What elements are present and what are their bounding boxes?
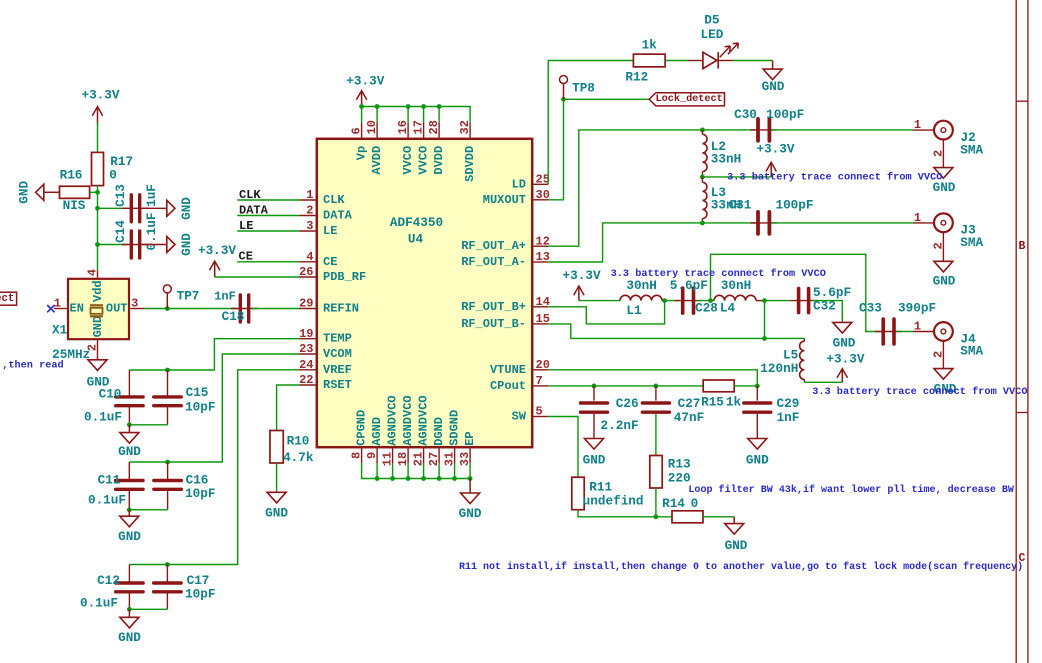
U4 left pin 29 REFIN stub (300, 308, 316, 310)
capacitor C31 (750, 222, 777, 224)
svg-text:EN: EN (70, 302, 84, 316)
svg-text:1: 1 (54, 296, 61, 310)
U4 right pin 5 SW stub (534, 416, 549, 418)
ground arrow (C13) (167, 200, 175, 216)
capacitor C14 (122, 244, 149, 246)
connector J2 pin 1 stub (913, 129, 934, 131)
wire VREF to C12/C17 (129, 370, 299, 565)
resistor R16 (60, 186, 90, 198)
svg-text:GND: GND (933, 274, 956, 289)
U4 right pin 30 MUXOUT stub (534, 199, 549, 201)
U4 top pin 32 SDVDD stub (469, 122, 471, 137)
ground (X1) (97, 356, 99, 360)
junction (452, 476, 457, 481)
svg-text:R11 not install,if install,the: R11 not install,if install,then change 0… (459, 561, 1023, 573)
wire R17 to node (97, 186, 99, 193)
capacitor C32 (790, 300, 817, 302)
svg-text:TP8: TP8 (572, 80, 595, 95)
svg-text:13: 13 (536, 250, 550, 264)
U4 right pin 7 CPout stub (534, 385, 549, 387)
svg-text:C26: C26 (616, 396, 639, 411)
svg-text:C27: C27 (678, 396, 701, 411)
U4 top pin 16 VVCO stub (407, 122, 409, 137)
U4 right pin 12 RF_OUT_A+ stub (534, 245, 549, 247)
junction (TP7) (165, 306, 170, 311)
U4 bottom pin 9 AGND stub (376, 449, 378, 464)
wire ground drop (407, 463, 409, 479)
junction (762, 336, 767, 341)
connector J4 SMA (934, 322, 953, 341)
J4 pin 2 stub (942, 341, 944, 369)
resistor R11 (572, 477, 584, 510)
ground (R10) (267, 492, 286, 503)
wire RF_OUT_A+ to J2 line (548, 130, 756, 246)
capacitor C13 (122, 207, 149, 209)
J2 pin 2 stub (942, 140, 944, 168)
junction (95, 206, 100, 211)
svg-text:1nF: 1nF (776, 410, 799, 425)
hierarchical label ect (clipped) (0, 292, 17, 305)
wire R15 to node (734, 385, 757, 387)
svg-text:C13: C13 (113, 184, 128, 207)
svg-text:2: 2 (931, 242, 945, 249)
capacitor C33 (875, 331, 902, 333)
svg-text:VCOM: VCOM (323, 347, 352, 361)
inductor L2 (702, 134, 707, 171)
svg-text:30nH: 30nH (626, 278, 656, 293)
svg-text:1nF: 1nF (214, 289, 236, 303)
svg-text:L4: L4 (720, 301, 736, 316)
junction (700, 175, 705, 180)
resistor R14 (672, 511, 703, 523)
U4 left pin 1 CLK stub (300, 199, 316, 201)
svg-text:CE: CE (239, 250, 253, 264)
svg-text:9: 9 (365, 452, 379, 459)
svg-text:AVDD: AVDD (370, 146, 384, 175)
svg-text:1: 1 (914, 211, 921, 225)
wire supply drop (361, 107, 363, 123)
ground (C10) (128, 425, 130, 433)
connector J2 SMA (934, 121, 953, 140)
wire VCOM to C11/C16 (129, 354, 299, 462)
svg-text:X1: X1 (52, 323, 68, 338)
junction (165, 368, 170, 373)
svg-text:2: 2 (931, 351, 945, 358)
svg-text:DGND: DGND (432, 417, 446, 446)
J3 pin 2 stub (942, 232, 944, 261)
junction (VTUNE/C29 node) (755, 384, 760, 389)
svg-text:AGND: AGND (370, 417, 384, 446)
junction (390, 476, 395, 481)
svg-text:390pF: 390pF (898, 301, 936, 316)
ground (J3) (934, 261, 953, 272)
wire LD to R12 (548, 61, 633, 185)
svg-text:SMA: SMA (960, 235, 983, 250)
wire ground drop (454, 463, 456, 479)
wire L1 node to C28 (665, 300, 680, 302)
svg-text:10pF: 10pF (185, 399, 215, 414)
wire RSET to R10 (277, 385, 300, 431)
svg-text:RF_OUT_A+: RF_OUT_A+ (461, 239, 526, 253)
svg-text:GND: GND (746, 453, 769, 468)
junction (127, 507, 132, 512)
wire to C14 (98, 244, 128, 246)
svg-text:GND: GND (118, 630, 141, 645)
svg-text:C18: C18 (222, 309, 245, 324)
junction (L3 bottom) (700, 221, 705, 226)
svg-text:5.6pF: 5.6pF (670, 278, 708, 293)
svg-text:2: 2 (306, 204, 313, 218)
svg-text:R10: R10 (287, 434, 310, 449)
X1 pin 4 stub (Vdd) (97, 271, 99, 278)
U4 right pin 25 LD stub (534, 183, 549, 185)
wire R12 to D5 (665, 60, 688, 62)
ground (C12) (128, 609, 130, 617)
svg-text:VREF: VREF (323, 363, 352, 377)
svg-text:+3.3V: +3.3V (81, 88, 119, 103)
wire L4 node to C32 (765, 300, 791, 302)
svg-text:+3.3V: +3.3V (563, 268, 601, 283)
connector J3 SMA (934, 213, 953, 232)
svg-text:Loop filter BW 43k,if want low: Loop filter BW 43k,if want lower pll tim… (688, 484, 1015, 496)
wire supply drop (376, 107, 378, 123)
svg-text:7: 7 (536, 374, 543, 388)
wire node down XO Vdd (97, 192, 99, 270)
wire RF_OUT_B+ under L1 (548, 301, 664, 324)
wire +3.3V to L1 (579, 300, 620, 302)
wire C14 to gnd arrow (143, 244, 166, 246)
svg-text:C28: C28 (695, 301, 718, 316)
junction (359, 104, 364, 109)
svg-text:+3.3V: +3.3V (756, 141, 794, 156)
wire C12/C17 bottoms (129, 608, 167, 610)
svg-text:1: 1 (306, 188, 313, 202)
svg-text:0.1uF: 0.1uF (80, 596, 118, 611)
resistor R12 (633, 54, 665, 67)
svg-text:REFIN: REFIN (323, 302, 359, 316)
svg-text:1uF: 1uF (144, 184, 159, 207)
junction (375, 476, 380, 481)
junction (592, 384, 597, 389)
svg-text:C: C (1018, 552, 1025, 565)
wire C29 to ground (756, 414, 758, 439)
power +3.3V symbol (XO supply) (97, 107, 99, 125)
junction (R13/R14 node) (654, 514, 659, 519)
wire net LE (237, 230, 299, 232)
wire CPout (548, 385, 703, 387)
svg-text:GND: GND (91, 316, 105, 338)
svg-text:+3.3V: +3.3V (198, 243, 236, 258)
wire C33 to J4 (897, 331, 913, 333)
svg-text:U4: U4 (408, 232, 424, 247)
svg-text:NIS: NIS (63, 198, 86, 213)
svg-text:0.1uF: 0.1uF (84, 409, 122, 424)
U4 left pin 26 PDB_RF stub (300, 276, 316, 278)
svg-text:4: 4 (86, 269, 100, 276)
resistor R13 (650, 456, 662, 489)
svg-text:8: 8 (350, 452, 364, 459)
svg-text:PDB_RF: PDB_RF (323, 270, 366, 284)
svg-text:B: B (1018, 240, 1025, 253)
X1 pin 2 stub (GND) (97, 340, 99, 356)
svg-text:C29: C29 (776, 396, 799, 411)
wire C26 to ground (593, 414, 595, 439)
svg-text:Vp: Vp (355, 146, 369, 160)
inductor L1 (620, 295, 662, 300)
svg-text:ect: ect (0, 293, 14, 305)
junction (95, 190, 100, 195)
svg-text:RF_OUT_B+: RF_OUT_B+ (461, 300, 526, 314)
capacitor C28 (675, 300, 702, 302)
wire net DATA (237, 215, 299, 217)
wire TEMP to C10/C15 (129, 339, 299, 370)
junction (L4/C32 node) (762, 298, 767, 303)
svg-text:29: 29 (299, 297, 313, 311)
svg-text:220: 220 (668, 470, 691, 485)
resistor R10 (270, 431, 283, 464)
svg-text:LE: LE (239, 219, 253, 233)
svg-text:GND: GND (17, 180, 32, 203)
wire R13 to node (655, 488, 657, 517)
svg-text:RF_OUT_B-: RF_OUT_B- (461, 317, 526, 331)
connector J4 pin 1 stub (913, 331, 934, 333)
U4 bottom pin 21 AGNDVCO stub (423, 449, 425, 464)
svg-text:3.3 battery trace connect from: 3.3 battery trace connect from VVCO (611, 268, 826, 280)
wire supply drop (407, 107, 409, 123)
svg-text:LD: LD (512, 177, 526, 191)
svg-text:DATA: DATA (239, 203, 269, 217)
svg-text:C12: C12 (97, 573, 120, 588)
wire C13 to gnd arrow (143, 207, 166, 209)
svg-text:GND: GND (179, 233, 194, 256)
svg-text:CLK: CLK (323, 193, 345, 207)
U4 bottom pin 18 AGNDVCO stub (407, 449, 409, 464)
junction (L2 top) (700, 127, 705, 132)
capacitor C11 (128, 462, 130, 480)
capacitor C12 (128, 565, 130, 583)
wire L5 to +3.3V (804, 381, 842, 383)
connector J3 pin 1 stub (913, 222, 934, 224)
wire +3.3V to R17 (97, 122, 99, 152)
wire C18 to REFIN (252, 308, 300, 310)
svg-text:SW: SW (512, 410, 527, 424)
svg-text:AGNDVCO: AGNDVCO (386, 395, 400, 445)
svg-text:undefind: undefind (583, 494, 644, 509)
U4 right pin 15 RF_OUT_B- stub (534, 323, 549, 325)
wire PDB_RF to +3.3V (215, 276, 300, 278)
svg-text:VVCO: VVCO (417, 146, 431, 175)
inductor L3 (702, 182, 707, 218)
svg-text:AGNDVCO: AGNDVCO (401, 395, 415, 445)
wire ground drop (376, 463, 378, 479)
svg-text:30nH: 30nH (721, 278, 751, 293)
wire bridge C28 node to C33 (711, 254, 880, 331)
svg-text:24: 24 (299, 358, 313, 372)
svg-text:14: 14 (536, 295, 550, 309)
svg-text:SMA: SMA (960, 344, 983, 359)
svg-text:TP7: TP7 (177, 289, 200, 304)
junction (375, 104, 380, 109)
svg-text:GND: GND (833, 336, 856, 351)
power +3.3V symbol (PDB_RF) (214, 261, 216, 277)
U4 left pin 22 RSET stub (300, 384, 316, 386)
capacitor C29 (756, 386, 758, 401)
ground (R14) (733, 517, 735, 524)
wire L2/L3 node to +3.3V (702, 176, 771, 178)
X1 pin 1 stub (EN) (54, 308, 67, 310)
svg-text:6: 6 (350, 127, 364, 134)
svg-text:LED: LED (700, 27, 723, 42)
svg-text:TEMP: TEMP (323, 332, 352, 346)
U4 bottom pin 27 DGND stub (438, 449, 440, 464)
junction (165, 562, 170, 567)
U4 top pin 6 Vp stub (361, 122, 363, 137)
wire RF_OUT_B- to L5 (548, 324, 804, 339)
ground (U4 GND pins) (469, 479, 471, 494)
wire C30 to J2 (772, 129, 914, 131)
svg-text:EP: EP (463, 431, 477, 445)
svg-text:GND: GND (118, 529, 141, 544)
U4 left pin 4 CE stub (300, 261, 316, 263)
svg-text:VVCO: VVCO (401, 146, 415, 175)
U4 bottom pin 11 AGNDVCO stub (392, 449, 394, 464)
svg-text:C10: C10 (99, 386, 122, 401)
svg-text:SDGND: SDGND (448, 410, 462, 446)
svg-text:GND: GND (583, 453, 606, 468)
wire X1 OUT to REFIN (145, 308, 238, 310)
wire TP8 to Lock_detect (564, 98, 650, 100)
inductor L5 (800, 341, 805, 379)
ground (C29) (748, 439, 767, 450)
svg-text:,then read: ,then read (2, 360, 64, 372)
U4 top pin 10 AVDD stub (376, 122, 378, 137)
svg-text:CE: CE (323, 255, 337, 269)
wire C10/C15 bottoms (129, 424, 167, 426)
svg-text:CPout: CPout (490, 379, 526, 393)
wire ground drop (392, 463, 394, 479)
ground (C32) (833, 322, 852, 333)
wire MUXOUT to TP8 (548, 99, 563, 200)
U4 left pin 24 VREF stub (300, 369, 316, 371)
svg-text:+3.3V: +3.3V (826, 352, 864, 367)
svg-text:LE: LE (323, 224, 337, 238)
wire C32 to ground (812, 301, 842, 323)
hierarchical label Lock_detect (649, 93, 724, 106)
svg-text:C11: C11 (98, 473, 121, 488)
svg-text:R16: R16 (60, 168, 83, 183)
svg-text:Vdd: Vdd (91, 280, 105, 302)
svg-text:C15: C15 (186, 385, 209, 400)
svg-text:20: 20 (536, 358, 550, 372)
wire R14 to ground (703, 516, 734, 518)
U4 top pin 28 DVDD stub (438, 122, 440, 137)
svg-text:GND: GND (762, 79, 785, 94)
no-connect X (pin 1) (47, 305, 54, 312)
svg-text:C14: C14 (113, 220, 128, 243)
resistor R15 (703, 380, 734, 392)
svg-text:R13: R13 (668, 457, 691, 472)
svg-text:47nF: 47nF (674, 410, 704, 425)
svg-text:2.2nF: 2.2nF (601, 418, 639, 433)
U4 left pin 3 LE stub (300, 230, 316, 232)
svg-text:100pF: 100pF (775, 197, 813, 212)
wire SW to R11 (548, 417, 578, 478)
wire supply drop (423, 107, 425, 123)
U4 bottom pin 8 CPGND stub (361, 449, 363, 464)
wire R11 to node (578, 510, 656, 517)
svg-text:0: 0 (691, 496, 699, 511)
svg-text:GND: GND (118, 444, 141, 459)
wire supply drop (438, 107, 440, 123)
X1 pin 3 stub (OUT) (130, 308, 144, 310)
U4 top pin 17 VVCO stub (423, 122, 425, 137)
IC U4 ADF4350 body (317, 139, 532, 447)
capacitor C27 (655, 386, 657, 401)
svg-text:120nH: 120nH (760, 361, 798, 376)
wire C28 to L4 (697, 300, 715, 302)
test point TP7 (166, 293, 168, 309)
wire D5 to ground (733, 60, 773, 62)
wire RF_OUT_A- to J3 line (548, 223, 756, 262)
svg-text:5: 5 (536, 405, 543, 419)
junction (437, 476, 442, 481)
junction (406, 476, 411, 481)
svg-text:MUXOUT: MUXOUT (483, 193, 526, 207)
wire ground drop (423, 463, 425, 479)
power +3.3V symbol (U4 supply) (361, 91, 363, 107)
svg-text:1k: 1k (642, 37, 658, 52)
ground (D5) (772, 61, 774, 70)
junction (654, 384, 659, 389)
wire node to R14 (656, 516, 672, 518)
svg-text:3.3 battery trace connect from: 3.3 battery trace connect from VVCO (727, 171, 942, 183)
svg-text:SDVDD: SDVDD (463, 146, 477, 182)
svg-text:CPGND: CPGND (355, 410, 369, 446)
wire net CE (237, 261, 299, 263)
svg-text:C33: C33 (859, 301, 882, 316)
wire ground drop (469, 463, 471, 479)
svg-text:GND: GND (459, 506, 482, 521)
svg-text:C30: C30 (734, 107, 757, 122)
svg-text:C31: C31 (729, 197, 752, 212)
junction (421, 104, 426, 109)
junction (127, 607, 132, 612)
capacitor C18 (231, 308, 258, 310)
svg-text:1: 1 (914, 320, 921, 334)
wire C31 to J3 (772, 222, 914, 224)
svg-text:R14: R14 (662, 496, 685, 511)
junction (468, 476, 473, 481)
resistor R17 (92, 152, 104, 185)
power +3.3V symbol (VVCO feed A) (770, 162, 772, 177)
svg-text:SMA: SMA (960, 142, 983, 157)
junction (165, 460, 170, 465)
junction (437, 104, 442, 109)
LED D5 (688, 60, 703, 62)
svg-text:DATA: DATA (323, 209, 353, 223)
test point TP8 (563, 84, 565, 100)
svg-text:CLK: CLK (239, 188, 261, 202)
capacitor C15 (167, 370, 169, 396)
svg-text:L1: L1 (626, 303, 642, 318)
U4 right pin 14 RF_OUT_B+ stub (534, 306, 549, 308)
wire ground drop (438, 463, 440, 479)
svg-text:4: 4 (306, 250, 313, 264)
svg-text:12: 12 (536, 234, 550, 248)
svg-text:0.1uF: 0.1uF (88, 493, 126, 508)
svg-text:3.3 battery trace connect from: 3.3 battery trace connect from VVCO (812, 386, 1027, 398)
ground arrow (R16) (36, 184, 44, 200)
